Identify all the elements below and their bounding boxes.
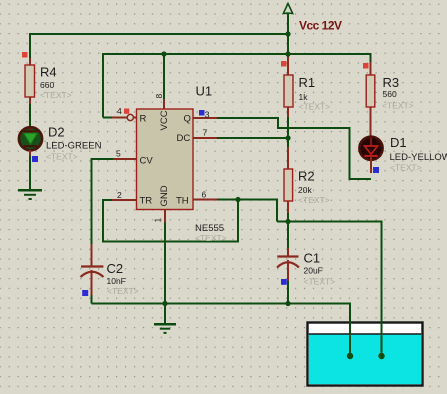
- tank probe right: [378, 353, 384, 359]
- wire R4 to D2: [29, 103, 31, 127]
- probe marker pin3: [199, 110, 205, 116]
- wire D2 to ground: [29, 154, 31, 190]
- svg-text:7: 7: [203, 128, 208, 138]
- junction node TH/TR: [235, 197, 240, 202]
- pin 4 bubble: [127, 114, 136, 120]
- capacitor C2: [81, 244, 104, 295]
- svg-text:3: 3: [205, 110, 210, 120]
- pin number 6: [202, 190, 207, 200]
- pin 8 lead: [163, 99, 165, 109]
- ground symbol (pin1 main): [154, 324, 176, 333]
- svg-text:660: 660: [40, 80, 54, 90]
- D1 labels: [390, 135, 447, 173]
- svg-text:R2: R2: [298, 169, 315, 184]
- svg-text:6: 6: [202, 190, 207, 200]
- svg-text:CV: CV: [140, 156, 154, 167]
- svg-text:<TEXT>: <TEXT>: [40, 90, 72, 100]
- resistor R2: [284, 147, 293, 213]
- svg-text:2: 2: [117, 190, 122, 200]
- wire Q output to D1: [203, 118, 371, 179]
- NE555 label: [195, 223, 227, 243]
- probe marker D2: [32, 156, 38, 162]
- svg-text:<TEXT>: <TEXT>: [299, 102, 331, 112]
- R3 labels: [382, 75, 414, 111]
- probe marker C1: [281, 279, 287, 285]
- junction node gnd/pin1: [162, 301, 167, 306]
- wire CV pin5 to C2: [92, 159, 128, 245]
- svg-text:C2: C2: [107, 261, 124, 276]
- wire pin1 gnd: [164, 220, 166, 324]
- wire TH pin6: [203, 200, 277, 222]
- junction node C1/gnd: [285, 301, 290, 306]
- svg-text:R1: R1: [299, 75, 316, 90]
- svg-text:D1: D1: [390, 135, 407, 150]
- wire R2 bottom node: [287, 212, 289, 222]
- D2 labels: [46, 125, 102, 162]
- pin label DC: [177, 133, 191, 144]
- pin label CV: [140, 156, 154, 167]
- svg-text:20k: 20k: [298, 185, 312, 195]
- C2 labels: [107, 261, 139, 296]
- led D2 green: [19, 97, 42, 156]
- svg-text:8: 8: [154, 94, 164, 99]
- wire C1 bottom lead: [287, 280, 289, 304]
- resistor R3: [366, 62, 375, 137]
- svg-text:DC: DC: [177, 133, 191, 144]
- pin label R: [140, 114, 147, 125]
- R4 labels: [40, 65, 72, 101]
- pin number 7: [203, 128, 208, 138]
- terminal marker pin4: [124, 109, 129, 114]
- water tank: [308, 323, 423, 386]
- wire R1 bottom / R2 top node: [287, 116, 289, 148]
- svg-text:R4: R4: [40, 65, 57, 80]
- terminal marker R1: [281, 61, 287, 67]
- svg-text:TR: TR: [140, 196, 153, 207]
- pin number 8: [154, 94, 164, 99]
- svg-text:1k: 1k: [299, 92, 309, 102]
- pin label TH: [176, 196, 189, 207]
- pin label TR: [140, 196, 153, 207]
- svg-text:10nF: 10nF: [107, 276, 126, 286]
- svg-text:1: 1: [153, 218, 163, 223]
- svg-text:<TEXT>: <TEXT>: [382, 101, 414, 111]
- led D1 yellow: [359, 137, 382, 173]
- pin number 5: [116, 149, 121, 159]
- svg-text:<TEXT>: <TEXT>: [46, 152, 78, 162]
- svg-text:<TEXT>: <TEXT>: [304, 277, 336, 287]
- svg-text:<TEXT>: <TEXT>: [195, 233, 227, 243]
- svg-text:<TEXT>: <TEXT>: [298, 195, 330, 205]
- svg-text:C1: C1: [304, 251, 321, 266]
- U1 label: [196, 84, 213, 99]
- svg-text:Q: Q: [184, 114, 191, 125]
- wire DC pin7 to R1/R2: [203, 137, 288, 139]
- wire pin4 reset: [103, 117, 127, 119]
- svg-text:Vcc 12V: Vcc 12V: [299, 19, 342, 33]
- wire C2 bottom to ground rail: [91, 294, 93, 304]
- pin 5 lead: [113, 158, 137, 160]
- pin 7 lead: [193, 137, 217, 139]
- pin number 3: [205, 110, 210, 120]
- ground symbol (D2): [18, 190, 42, 199]
- wire rail B (Vcc to pin4 / pin8 / R3): [103, 54, 371, 118]
- svg-text:VCC: VCC: [159, 110, 170, 130]
- R2 labels: [298, 169, 330, 206]
- pin label GND: [159, 185, 170, 206]
- pin label VCC: [159, 110, 170, 130]
- svg-text:R3: R3: [383, 75, 400, 90]
- svg-text:5: 5: [116, 149, 121, 159]
- wire pin8 vcc: [163, 54, 165, 100]
- svg-text:<TEXT>: <TEXT>: [107, 286, 139, 296]
- capacitor C1: [277, 248, 299, 281]
- R1 labels: [299, 75, 331, 112]
- pin number 1: [153, 218, 163, 223]
- Vcc power symbol: [283, 4, 292, 59]
- pin 6 lead: [193, 199, 217, 201]
- svg-text:LED-GREEN: LED-GREEN: [46, 141, 102, 152]
- pin number 4: [117, 106, 122, 116]
- svg-text:<TEXT>: <TEXT>: [390, 163, 422, 173]
- svg-text:GND: GND: [159, 185, 170, 206]
- C1 labels: [304, 251, 336, 287]
- probe marker C2: [82, 290, 88, 296]
- terminal marker R3: [363, 63, 369, 69]
- op 555 timer U1: [137, 109, 194, 210]
- svg-text:R: R: [140, 114, 147, 125]
- svg-text:LED-YELLOW.: LED-YELLOW.: [390, 152, 447, 163]
- svg-text:4: 4: [117, 106, 122, 116]
- wire C1 top lead: [287, 222, 289, 250]
- junction node R1/R2/pin7: [285, 135, 290, 140]
- pin 2 lead: [112, 199, 137, 201]
- svg-text:20uF: 20uF: [304, 266, 323, 276]
- wire R2/C1/tank right probe: [277, 222, 382, 357]
- tank probe left: [347, 353, 353, 359]
- resistor R4: [25, 58, 35, 104]
- wire TR pin2 loop to TH: [103, 200, 238, 242]
- pin number 2: [117, 190, 122, 200]
- pin 3 lead: [193, 117, 217, 119]
- junction node pin8/railB: [161, 51, 166, 56]
- svg-text:560: 560: [383, 89, 397, 99]
- svg-text:D2: D2: [48, 125, 65, 140]
- probe marker D1: [373, 167, 379, 173]
- wire rail A (Vcc to R4): [30, 34, 288, 60]
- wire ground rail: [92, 304, 351, 357]
- pin 1 lead: [164, 210, 166, 223]
- Vcc 12V label: [299, 19, 342, 33]
- junction node Vcc/railA: [285, 31, 290, 36]
- svg-text:U1: U1: [196, 84, 213, 99]
- resistor R1: [284, 57, 293, 117]
- junction node R2/C1: [285, 219, 290, 224]
- terminal marker R4: [22, 52, 28, 58]
- junction node Vcc/railB: [285, 51, 290, 56]
- pin label Q: [184, 114, 191, 125]
- svg-text:TH: TH: [176, 196, 189, 207]
